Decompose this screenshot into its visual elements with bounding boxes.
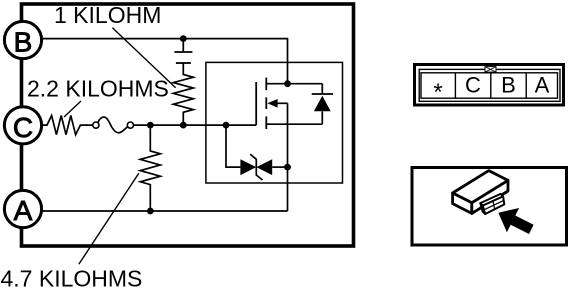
junction C rail R3 xyxy=(147,122,154,129)
svg-text:A: A xyxy=(535,73,550,98)
wire A rail from terminal A to body vertical xyxy=(42,210,288,212)
terminal C xyxy=(4,107,41,144)
svg-text:2.2 KILOHMS: 2.2 KILOHMS xyxy=(27,76,169,102)
connector keying bowtie xyxy=(485,67,496,73)
wire C rail to MOSFET gate xyxy=(134,124,257,126)
junction A rail R3 xyxy=(147,208,154,215)
wire zener branch from C rail xyxy=(226,125,240,167)
junction drain node xyxy=(284,80,291,87)
diode D1 xyxy=(312,84,333,125)
wire B rail from terminal B to drain xyxy=(42,39,288,84)
module 3D icon right face xyxy=(472,180,508,213)
zener D2 bidirectional xyxy=(240,154,287,180)
svg-text:A: A xyxy=(14,195,33,226)
MOSFET Q1 source lead xyxy=(266,123,322,125)
svg-text:*: * xyxy=(433,79,442,106)
connector pin table inner frame xyxy=(419,69,560,101)
junction C rail zener branch xyxy=(223,122,230,129)
svg-text:C: C xyxy=(465,73,481,98)
terminal B xyxy=(4,21,41,58)
connector pin table outer box xyxy=(415,65,564,106)
arrow pointer xyxy=(498,208,533,234)
junction zener body node xyxy=(284,164,291,171)
leader 2.2 KILOHMS xyxy=(64,101,81,117)
MOSFET Q1 gate xyxy=(255,82,257,125)
wire pigtail between splices xyxy=(98,117,128,133)
svg-text:C: C xyxy=(13,112,33,143)
junction C rail R1 xyxy=(180,122,187,129)
splice open circle 1 xyxy=(93,122,99,128)
svg-text:B: B xyxy=(14,27,33,58)
wire body vertical to A rail xyxy=(287,103,289,211)
inner module box xyxy=(206,62,343,183)
module location box xyxy=(412,168,567,246)
terminal A xyxy=(4,190,41,227)
leader 1 KILOHM xyxy=(112,28,175,88)
module 3D icon left face xyxy=(453,193,472,213)
MOSFET Q1 body arrow xyxy=(267,99,287,108)
capacitor C1 xyxy=(174,39,192,63)
svg-text:4.7 KILOHMS: 4.7 KILOHMS xyxy=(1,266,143,292)
module connector block xyxy=(480,194,504,214)
leader 4.7 KILOHMS xyxy=(79,173,139,264)
resistor R3 4.7 KILOHMS xyxy=(140,125,160,211)
MOSFET Q1 channel segments xyxy=(265,78,267,129)
connector pin cells xyxy=(421,73,558,98)
resistor R1 1 KILOHM xyxy=(173,63,193,125)
outer component box xyxy=(22,4,354,246)
module 3D icon top face xyxy=(453,171,508,203)
splice open circle 2 xyxy=(127,122,133,128)
svg-text:B: B xyxy=(501,73,516,98)
resistor R2 2.2 KILOHMS on C rail xyxy=(42,116,93,135)
junction top of R1 xyxy=(180,35,187,42)
svg-text:1 KILOHM: 1 KILOHM xyxy=(54,2,161,28)
MOSFET Q1 drain lead xyxy=(266,83,322,85)
